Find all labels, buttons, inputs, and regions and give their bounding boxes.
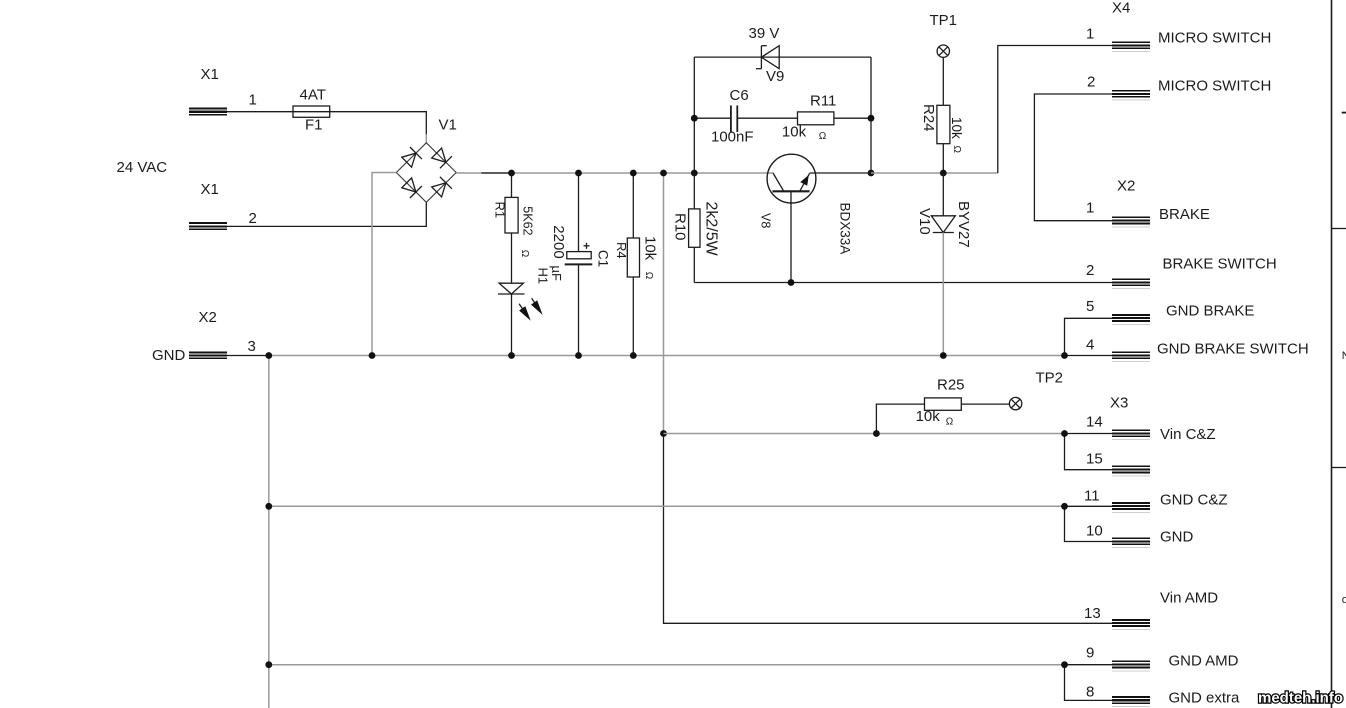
wire X1-1 to fuse: [227, 111, 293, 113]
svg-text:GND BRAKE SWITCH: GND BRAKE SWITCH: [1157, 341, 1309, 358]
connector pin 5: [1112, 314, 1150, 325]
svg-text:10k: 10k: [949, 117, 964, 139]
junction rail at R1: [508, 170, 515, 177]
wire GND C&Z stub and pin 10 drop: [1065, 506, 1113, 541]
connector X2 pin 3: [189, 351, 227, 359]
resistor R1: [505, 173, 518, 283]
svg-text:2: 2: [1086, 262, 1094, 279]
LED H1 emission arrow 1: [519, 304, 531, 321]
svg-text:GND: GND: [1160, 529, 1194, 546]
bridge rectifier V1 diamond: [396, 143, 456, 203]
svg-text:1: 1: [1086, 200, 1094, 217]
junction rail at R24: [940, 170, 947, 177]
svg-text:X1: X1: [201, 181, 219, 198]
wire gnd brake switch stub: [1065, 355, 1113, 357]
transistor V8: [767, 154, 816, 282]
connector pin 4: [1112, 351, 1150, 362]
connector X4 pin 2: [1112, 90, 1150, 101]
svg-text:10k: 10k: [916, 408, 941, 425]
svg-text:5: 5: [1086, 298, 1094, 315]
svg-text:GND: GND: [152, 347, 186, 364]
svg-text:BRAKE SWITCH: BRAKE SWITCH: [1163, 256, 1277, 273]
connector X3 pin 8: [1112, 696, 1150, 707]
wire GND left vertical drop: [268, 356, 270, 708]
junction GND AMD: [1061, 661, 1068, 668]
svg-text:GND AMD: GND AMD: [1169, 653, 1239, 670]
svg-text:11: 11: [1084, 488, 1100, 505]
svg-text:39 V: 39 V: [749, 25, 780, 42]
junction GND at brake branch: [1061, 352, 1068, 359]
connector X3 pin 13: [1112, 619, 1150, 630]
svg-text:TP2: TP2: [1036, 370, 1064, 387]
wire main +V rail (collector side): [456, 172, 773, 174]
wire GND AMD line: [269, 664, 1065, 666]
svg-text:C6: C6: [730, 87, 749, 104]
svg-text:Ω: Ω: [819, 131, 827, 142]
LED H1 emission arrow 2: [531, 298, 543, 315]
junction rail at R4: [630, 170, 637, 177]
svg-text:2: 2: [1087, 74, 1095, 91]
svg-text:8: 8: [1086, 684, 1094, 701]
svg-text:R11: R11: [810, 93, 836, 110]
svg-text:µF: µF: [549, 266, 564, 281]
bridge diode D-a (left to top): [402, 147, 422, 167]
svg-text:X2: X2: [1117, 178, 1135, 195]
svg-text:13: 13: [1084, 605, 1101, 622]
svg-text:X2: X2: [199, 309, 217, 326]
svg-text:MICRO SWITCH: MICRO SWITCH: [1158, 78, 1271, 95]
svg-text:V10: V10: [916, 208, 933, 235]
zener diode V9: [756, 46, 779, 69]
wire gnd brake branch: [1065, 318, 1113, 355]
svg-text:14: 14: [1086, 414, 1103, 431]
junction rail at C1: [575, 170, 582, 177]
frame zone letter 1 (clipped): [1342, 112, 1346, 114]
svg-text:C1: C1: [596, 250, 611, 267]
junction R25 at Vin line: [873, 430, 880, 437]
junction rail at feed: [660, 170, 667, 177]
svg-text:5K62: 5K62: [521, 206, 535, 235]
svg-text:Ω: Ω: [951, 146, 962, 154]
wire GND C&Z line: [269, 505, 1065, 507]
connector X1 pin 1: [189, 108, 227, 116]
bridge diode D-d (bottom to right): [432, 177, 452, 197]
junction GND at bridge return: [369, 352, 376, 359]
svg-text:4AT: 4AT: [300, 87, 326, 104]
junction rail at loop right: [868, 170, 875, 177]
svg-text:3: 3: [248, 338, 256, 355]
svg-text:V9: V9: [766, 68, 784, 85]
zener loop left vertical wire: [693, 57, 695, 173]
wire X1-2 to bridge bottom: [227, 202, 426, 226]
frame border right: [1331, 0, 1333, 708]
svg-text:medteh.info: medteh.info: [1258, 690, 1343, 707]
wire vertical feed down (gray upper part): [663, 173, 665, 434]
zener loop top wire: [694, 56, 871, 58]
wire GND AMD stub and pin 8 drop: [1065, 665, 1113, 701]
connector X2 pin 1: [1112, 217, 1150, 228]
svg-text:V1: V1: [439, 117, 457, 134]
svg-text:10: 10: [1086, 523, 1103, 540]
resistor R25 branch: [876, 398, 1009, 434]
svg-text:100nF: 100nF: [711, 129, 754, 146]
wire bridge left vertex to GND rail: [372, 173, 396, 356]
junction GND AMD left: [265, 661, 272, 668]
zener loop right vertical wire: [870, 57, 872, 173]
junction loop left at C6: [691, 115, 698, 122]
wire fuse to bridge top: [330, 112, 427, 135]
svg-text:24 VAC: 24 VAC: [117, 159, 168, 176]
svg-text:2200: 2200: [550, 225, 567, 258]
wire base line to brake switch: [694, 282, 1112, 284]
junction GND C&Z left: [265, 503, 272, 510]
junction loop right at R11: [868, 115, 875, 122]
connector X3 pin 9: [1112, 661, 1150, 672]
connector X3 pin 15: [1112, 466, 1150, 477]
svg-text:R10: R10: [672, 213, 689, 241]
junction GND at H1: [508, 352, 515, 359]
wire micro switch 2 to brake: [1034, 94, 1112, 221]
svg-text:BDX33A: BDX33A: [838, 203, 853, 255]
wire Vin C&Z stub and pin 15 drop: [1065, 434, 1113, 470]
svg-text:V8: V8: [759, 213, 773, 228]
svg-text:MICRO SWITCH: MICRO SWITCH: [1158, 30, 1271, 47]
svg-text:Ω: Ω: [946, 417, 954, 428]
frame zone divider 2: [1332, 467, 1346, 469]
junction GND C&Z: [1061, 503, 1068, 510]
junction base at V8: [788, 279, 795, 286]
diode V10: [931, 173, 955, 356]
capacitor C1: [565, 173, 593, 356]
connector X3 pin 11: [1112, 502, 1150, 513]
svg-text:Ω: Ω: [519, 250, 530, 258]
svg-text:R24: R24: [920, 104, 937, 132]
junction GND at R4: [630, 352, 637, 359]
C1 plus sign: [584, 243, 590, 249]
fuse F1: [293, 106, 330, 117]
junction GND at C1: [575, 352, 582, 359]
svg-text:H1: H1: [536, 268, 551, 285]
wire X2-3 to GND rail: [227, 355, 269, 357]
svg-text:F1: F1: [305, 117, 323, 134]
svg-text:BYV27: BYV27: [955, 201, 972, 248]
resistor R24: [937, 57, 950, 173]
test point TP2: [1009, 397, 1021, 409]
svg-text:TP1: TP1: [930, 12, 958, 29]
wire rail black stub at R1: [481, 172, 511, 174]
svg-text:2: 2: [249, 210, 257, 227]
svg-text:N: N: [1342, 350, 1346, 362]
svg-text:1: 1: [249, 92, 257, 109]
wire Vin C&Z line: [664, 433, 1065, 435]
svg-text:15: 15: [1086, 451, 1103, 468]
svg-text:GND C&Z: GND C&Z: [1160, 492, 1228, 509]
svg-text:10k: 10k: [782, 124, 807, 141]
resistor R4: [627, 173, 639, 356]
junction GND at X2-3: [265, 352, 272, 359]
svg-text:X1: X1: [201, 66, 219, 83]
connector X4 pin 1: [1112, 41, 1150, 52]
svg-text:10k: 10k: [641, 236, 658, 261]
resistor R11: [798, 112, 872, 125]
svg-text:4: 4: [1086, 337, 1094, 354]
bridge diode D-c (left to bottom): [402, 178, 422, 198]
wire emitter rail (gray): [810, 172, 871, 174]
svg-text:o: o: [1342, 594, 1346, 606]
svg-text:9: 9: [1086, 645, 1094, 662]
junction rail at loop left: [691, 170, 698, 177]
watermark medteh.info: [1258, 690, 1343, 707]
wire bridge top entry: [425, 134, 427, 143]
svg-text:BRAKE: BRAKE: [1159, 206, 1210, 223]
resistor R10: [689, 173, 700, 283]
wire micro switch 1 riser: [998, 46, 1112, 174]
svg-text:2k2/5W: 2k2/5W: [703, 202, 720, 257]
svg-text:X4: X4: [1112, 0, 1130, 17]
connector X3 pin 14: [1112, 429, 1150, 440]
svg-text:GND extra: GND extra: [1169, 690, 1241, 707]
capacitor C6: [694, 105, 797, 132]
wire GND rail horizontal: [269, 355, 1065, 357]
frame zone divider 1: [1332, 228, 1346, 230]
svg-text:R4: R4: [614, 242, 629, 259]
svg-text:1: 1: [1086, 26, 1094, 43]
svg-text:Ω: Ω: [643, 272, 654, 280]
connector X1 pin 2: [189, 222, 227, 230]
svg-text:R25: R25: [937, 377, 965, 394]
svg-text:Vin C&Z: Vin C&Z: [1160, 426, 1216, 443]
wire feed lower vertical (black part): [664, 434, 1113, 624]
svg-text:GND BRAKE: GND BRAKE: [1166, 303, 1254, 320]
connector X2 pin 2: [1112, 278, 1150, 289]
junction GND at V10: [940, 352, 947, 359]
connector X3 pin 10: [1112, 537, 1150, 548]
junction feed at Vin C&Z: [660, 430, 667, 437]
bridge diode D-b (top to right): [432, 148, 452, 168]
svg-text:Vin AMD: Vin AMD: [1160, 590, 1218, 607]
junction Vin C&Z: [1061, 430, 1068, 437]
svg-text:R1: R1: [493, 202, 508, 219]
LED H1: [498, 283, 525, 355]
svg-text:X3: X3: [1110, 395, 1128, 412]
test point TP1: [937, 45, 949, 57]
